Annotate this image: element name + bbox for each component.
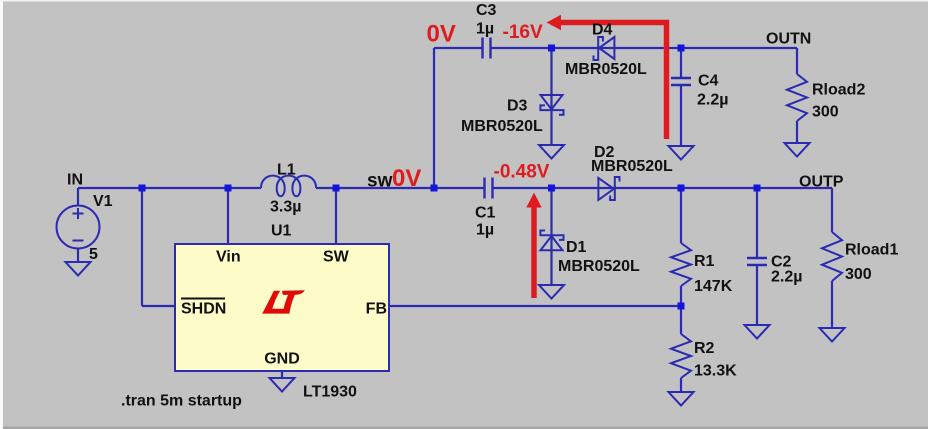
inductor L1 — [261, 176, 316, 197]
svg-text:GND: GND — [264, 351, 300, 368]
ground Rload2 — [785, 143, 810, 157]
node node B (C3/D3/D4) — [548, 45, 555, 52]
wire node to C2 — [756, 188, 758, 258]
resistor Rload1 body — [822, 232, 842, 281]
top white edge — [0, 0, 928, 2]
ground Rload1 — [820, 328, 845, 342]
diode D1 body — [540, 231, 563, 251]
svg-text:FB: FB — [366, 301, 387, 318]
node OUTN junction C4 — [678, 45, 685, 52]
svg-text:Rload1: Rload1 — [845, 242, 898, 259]
ground D3 — [539, 145, 564, 159]
svg-text:1µ: 1µ — [476, 222, 494, 239]
wire OUTP corner down — [831, 188, 833, 232]
capacitor C3 body — [481, 38, 483, 59]
bottom dark edge — [3, 427, 928, 429]
wire R1 to FB node — [680, 286, 682, 306]
svg-text:D1: D1 — [566, 239, 587, 256]
capacitor C4 body — [671, 77, 691, 79]
svg-text:Rload2: Rload2 — [812, 82, 865, 99]
svg-text:-16V: -16V — [503, 22, 543, 43]
wire Rload1 to ground — [831, 281, 833, 328]
ground V1 — [66, 262, 91, 276]
voltage source V1 — [57, 206, 100, 249]
diode D3 body — [540, 95, 563, 115]
resistor R2 body — [671, 334, 691, 378]
wire top corner to C3 — [434, 47, 483, 49]
svg-text:D3: D3 — [507, 98, 528, 115]
wire IN to L1 — [78, 187, 261, 189]
wire C4 to ground — [680, 85, 682, 146]
resistor Rload2 body — [787, 74, 807, 121]
wire SW to top rail — [433, 48, 435, 188]
svg-text:C3: C3 — [476, 2, 497, 19]
svg-text:2.2µ: 2.2µ — [697, 92, 728, 109]
op-amp U1 LT1930 body — [175, 244, 389, 371]
wire SHDN row to U1 — [142, 305, 175, 307]
wire node to R1 — [680, 188, 682, 243]
svg-text:147K: 147K — [694, 278, 733, 295]
svg-text:R2: R2 — [694, 340, 715, 357]
svg-text:0V: 0V — [392, 165, 421, 192]
svg-text:SW: SW — [323, 249, 350, 266]
wire IN corner to V1 top — [77, 188, 79, 206]
ground C2 — [745, 325, 770, 339]
capacitor C2 body — [747, 257, 767, 259]
node A1 junction SHDN — [139, 185, 146, 192]
node OUTP junction C2 — [754, 185, 761, 192]
capacitor C1 body — [483, 178, 485, 199]
current arrow bottom (D1 up) — [531, 206, 537, 298]
wire node to SHDN row — [141, 188, 143, 306]
svg-text:L1: L1 — [277, 162, 296, 179]
wire SW pin — [335, 188, 337, 244]
wire C2 to ground — [756, 265, 758, 325]
ground D1 — [539, 285, 564, 299]
svg-text:-0.48V: -0.48V — [494, 162, 550, 183]
wire C3 through D4 to OUTN corner — [491, 47, 798, 49]
svg-text:LT1930: LT1930 — [303, 384, 357, 401]
wire FB pin to divider — [389, 305, 681, 307]
svg-text:C1: C1 — [475, 205, 496, 222]
wire FB node to R2 — [680, 306, 682, 334]
svg-text:SHDN: SHDN — [181, 301, 226, 318]
wire L1 to C1 left — [316, 187, 485, 189]
svg-text:D4: D4 — [592, 22, 613, 39]
current arrow top (OUTN loop) — [558, 23, 667, 140]
svg-text:OUTN: OUTN — [766, 31, 811, 48]
ground U1 GND — [270, 378, 295, 392]
svg-text:13.3K: 13.3K — [694, 363, 737, 380]
ground R2 — [669, 392, 694, 406]
node OUTP junction R1 — [678, 185, 685, 192]
svg-text:Vin: Vin — [216, 249, 241, 266]
svg-text:MBR0520L: MBR0520L — [591, 158, 673, 175]
diode D4 body — [594, 37, 615, 60]
svg-text:MBR0520L: MBR0520L — [558, 258, 640, 275]
svg-text:300: 300 — [812, 104, 839, 121]
node FB divider junction — [678, 303, 685, 310]
wire V1 bottom to ground — [77, 248, 79, 262]
svg-text:MBR0520L: MBR0520L — [461, 118, 543, 135]
svg-text:OUTP: OUTP — [799, 174, 844, 191]
svg-text:1µ: 1µ — [476, 21, 494, 38]
node node A (C1/D1/D2) — [548, 185, 555, 192]
wire R2 to ground — [680, 378, 682, 392]
svg-text:300: 300 — [845, 266, 872, 283]
left white edge — [0, 0, 3, 429]
resistor R1 body — [671, 243, 691, 286]
svg-text:V1: V1 — [93, 193, 113, 210]
svg-text:R1: R1 — [694, 253, 715, 270]
node A2 junction Vin — [225, 185, 232, 192]
svg-text:5: 5 — [89, 246, 98, 263]
node SW junction — [333, 185, 340, 192]
wire node through D1 to ground — [550, 188, 552, 285]
wire OUTN corner down — [796, 48, 798, 74]
svg-text:sw: sw — [367, 171, 393, 192]
svg-text:0V: 0V — [427, 21, 456, 48]
wire C1 through D2 to OUTP corner — [493, 187, 833, 189]
svg-text:2.2µ: 2.2µ — [771, 269, 802, 286]
diode D2 body — [598, 177, 619, 200]
svg-text:MBR0520L: MBR0520L — [565, 61, 647, 78]
wire GND pin — [281, 371, 283, 378]
svg-text:3.3µ: 3.3µ — [270, 199, 301, 216]
svg-text:.tran 5m startup: .tran 5m startup — [121, 393, 242, 410]
node SW top-branch junction — [431, 185, 438, 192]
wire Rload2 to ground — [796, 121, 798, 143]
wire node to C4 — [680, 48, 682, 78]
LT logo — [262, 290, 305, 313]
svg-text:IN: IN — [67, 172, 83, 189]
svg-text:U1: U1 — [271, 223, 292, 240]
wire Vin pin — [227, 188, 229, 244]
wire node through D3 to ground — [550, 48, 552, 145]
ground C4 — [669, 146, 694, 160]
svg-text:C4: C4 — [698, 73, 719, 90]
